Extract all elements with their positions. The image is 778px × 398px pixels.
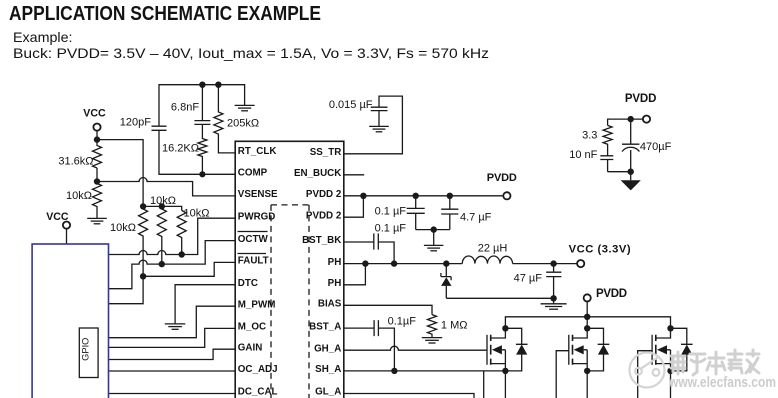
node top right dot <box>628 116 634 122</box>
ground 47uF <box>541 298 567 309</box>
node divider junction <box>94 178 100 184</box>
node bottom dot <box>628 169 634 175</box>
node rail dot 2 <box>159 203 165 209</box>
resistor pullup 10k (OCTW) label top <box>150 195 176 264</box>
node PVDD terminal (top right) <box>625 93 657 123</box>
watermark logo circle <box>630 353 665 388</box>
wire GH_A net with hop <box>344 346 487 350</box>
svg-text:BIAS: BIAS <box>318 299 342 310</box>
wire PWRGD net with hops <box>109 218 236 254</box>
wire VCC to pullup rail <box>97 140 143 207</box>
wire SH_A down to low side <box>483 371 485 398</box>
svg-text:DC_CAL: DC_CAL <box>238 387 278 398</box>
op-amp U1 DRV8301 IC body <box>235 141 344 398</box>
node PH dot b <box>391 260 397 266</box>
svg-text:PVDD 2: PVDD 2 <box>306 210 342 221</box>
wire VSENSE with hop <box>97 178 236 196</box>
svg-text:VSENSE: VSENSE <box>238 189 278 200</box>
node junction rail 6.8nF <box>199 82 205 88</box>
svg-text:22 µH: 22 µH <box>478 243 508 255</box>
svg-text:120pF: 120pF <box>120 116 151 128</box>
svg-text:PH: PH <box>328 257 342 268</box>
wire caps common ground <box>416 229 450 231</box>
transistor Q2 high side B <box>569 325 610 374</box>
resistor 205k <box>214 85 259 153</box>
svg-text:Example:: Example: <box>13 29 73 45</box>
ground arrow (top right) <box>621 180 641 190</box>
svg-text:3.3: 3.3 <box>582 130 597 142</box>
resistor R2 10k <box>66 184 101 219</box>
svg-text:10 nF: 10 nF <box>569 149 597 161</box>
three pullup resistors rail <box>143 206 182 210</box>
capacitor 470uF electrolytic <box>622 119 672 172</box>
svg-text:4.7 µF: 4.7 µF <box>460 212 492 224</box>
svg-text:GAIN: GAIN <box>238 342 262 353</box>
ground divider <box>87 218 107 223</box>
svg-text:6.8nF: 6.8nF <box>171 102 199 114</box>
svg-text:FAULT: FAULT <box>238 256 269 267</box>
pin FAULT with overline <box>238 254 269 267</box>
wire GL_A net <box>344 394 474 398</box>
node PVDD2 dot c <box>447 193 453 199</box>
wire VCC stem <box>96 130 98 139</box>
node COMP junction <box>199 171 205 177</box>
node PVDD terminal (FET rail) <box>584 288 627 302</box>
node FAULT pullup dot <box>140 273 146 279</box>
node 47uF dot <box>550 260 556 266</box>
node junction VCC <box>94 136 100 142</box>
wire BIAS net <box>344 305 432 314</box>
diode D1 catch <box>441 264 452 299</box>
wire FAULT net <box>109 262 236 303</box>
svg-text:31.6kΩ: 31.6kΩ <box>58 156 93 168</box>
svg-text:SS_TR: SS_TR <box>310 147 342 158</box>
transistor Q1 high side A <box>487 325 528 374</box>
svg-text:BST_A: BST_A <box>309 321 341 332</box>
capacitor 0.015uF <box>329 99 388 111</box>
wire Q1 source down <box>504 371 506 398</box>
svg-text:16.2KΩ: 16.2KΩ <box>162 142 199 154</box>
svg-text:0.1µF: 0.1µF <box>388 316 417 328</box>
capacitor C 6.8nF <box>171 85 210 125</box>
svg-text:GL_A: GL_A <box>315 387 341 398</box>
svg-text:10kΩ: 10kΩ <box>184 207 210 219</box>
ground top rail <box>235 105 255 110</box>
wire GAIN net <box>109 349 236 359</box>
svg-text:VCC (3.3V): VCC (3.3V) <box>569 243 631 255</box>
wire buck bottom rail <box>446 297 553 299</box>
svg-text:205kΩ: 205kΩ <box>227 117 259 129</box>
svg-text:GH_A: GH_A <box>314 343 341 354</box>
wire SH_A net <box>344 370 506 372</box>
svg-text:M_PWM: M_PWM <box>238 299 276 310</box>
wire PH pin b link <box>344 264 366 285</box>
ground PVDD2 caps <box>424 230 444 251</box>
capacitor BST_A 0.1uF <box>344 316 416 371</box>
svg-text:VCC: VCC <box>46 211 69 223</box>
svg-text:PVDD: PVDD <box>625 93 657 105</box>
svg-text:Buck: PVDD= 3.5V – 40V, Iout_m: Buck: PVDD= 3.5V – 40V, Iout_max = 1.5A,… <box>13 45 489 61</box>
svg-text:GPIO: GPIO <box>81 338 91 361</box>
GPIO block <box>32 244 108 398</box>
svg-text:10kΩ: 10kΩ <box>66 190 92 202</box>
wire PVDD2 pin b link <box>344 196 364 217</box>
svg-text:0.1 µF: 0.1 µF <box>375 205 407 217</box>
wire SS_TR net <box>344 96 403 154</box>
wire cap to ground <box>378 111 380 127</box>
svg-text:PWRGD: PWRGD <box>238 211 276 222</box>
node PVDD2 dot a <box>360 193 366 199</box>
svg-text:10kΩ: 10kΩ <box>110 222 136 234</box>
node BST_A to SH_A dot <box>391 368 397 374</box>
node bottom rail dot <box>550 295 556 301</box>
wire 120pF to COMP <box>159 130 236 174</box>
wire VCC to GPIO box <box>66 228 68 244</box>
node VCC 3.3V terminal <box>569 243 631 267</box>
wire Q2 gate <box>556 351 569 398</box>
svg-text:PVDD: PVDD <box>487 172 517 184</box>
wire M_PWM net <box>109 306 236 338</box>
node PVDD2 dot b <box>413 193 419 199</box>
resistor R1 31.6k <box>58 140 101 168</box>
svg-text:VCC: VCC <box>83 108 106 120</box>
capacitor BST_BK 0.1uF <box>344 223 406 264</box>
svg-text:BST_BK: BST_BK <box>302 235 341 246</box>
wire EN_BUCK stub <box>344 174 364 176</box>
inductor L1 22uH <box>462 243 512 264</box>
transistor Q3 high side C <box>652 325 693 374</box>
svg-text:www.elecfans.com: www.elecfans.com <box>668 374 776 391</box>
node rail dot <box>584 314 590 320</box>
svg-text:PVDD 2: PVDD 2 <box>306 189 342 200</box>
node PH dot a <box>362 260 368 266</box>
svg-text:OC_ADJ: OC_ADJ <box>238 364 278 375</box>
svg-text:47 µF: 47 µF <box>514 272 543 284</box>
capacitor 10nF <box>569 149 613 172</box>
node VCC terminal (top left) <box>83 108 106 131</box>
wire OCTW net with hop <box>109 241 236 289</box>
resistor 1M <box>428 315 468 338</box>
wire PH net <box>344 263 463 265</box>
node PVDD terminal <box>487 172 517 199</box>
svg-text:470µF: 470µF <box>640 141 672 153</box>
wire bottom link <box>608 171 631 173</box>
wire Q2 source down <box>586 371 588 398</box>
node OCTW pullup dot <box>159 261 165 267</box>
wire PVDD2 net <box>344 195 504 197</box>
svg-text:M_OC: M_OC <box>238 322 266 333</box>
node VCC terminal (GPIO) <box>46 211 70 229</box>
watermark chinese characters <box>671 350 759 375</box>
capacitor 4.7uF <box>441 196 491 230</box>
capacitor 47uF <box>514 264 562 299</box>
svg-text:OCTW: OCTW <box>238 234 269 245</box>
svg-text:10kΩ: 10kΩ <box>150 195 176 207</box>
pin OCTW with overline <box>238 232 269 245</box>
wire internal dashed boundary <box>271 205 309 398</box>
wire PVDD rail <box>505 301 670 328</box>
resistor pullup 10k (PWRGD) label right <box>177 207 209 254</box>
wire M_OC net <box>109 328 236 347</box>
ground 1M <box>422 338 442 343</box>
wire L to VCC terminal <box>513 263 578 265</box>
capacitor 0.1uF (PVDD2) <box>375 196 425 230</box>
wire OC_ADJ net <box>109 370 236 372</box>
node rail dot 1 <box>140 203 146 209</box>
resistor 16.2K <box>162 124 207 174</box>
wire DC_CAL net <box>109 393 236 395</box>
node PH dot diode <box>443 260 449 266</box>
GPIO inner label box <box>79 328 98 378</box>
svg-text:0.1 µF: 0.1 µF <box>375 223 407 235</box>
wire to gnd arrow <box>630 172 632 181</box>
wire top rail compensation <box>159 85 245 127</box>
svg-text:APPLICATION SCHEMATIC EXAMPLE: APPLICATION SCHEMATIC EXAMPLE <box>9 2 321 25</box>
svg-text:RT_CLK: RT_CLK <box>238 146 277 157</box>
resistor pullup 10k (FAULT) label left <box>110 209 148 276</box>
svg-text:EN_BUCK: EN_BUCK <box>294 168 341 179</box>
svg-text:0.015 µF: 0.015 µF <box>329 99 373 111</box>
node junction rail 205k <box>215 82 221 88</box>
wire top right rail <box>608 119 644 125</box>
capacitor 120pF <box>120 116 167 130</box>
ground DTC <box>165 324 186 329</box>
resistor 3.3 <box>582 125 612 155</box>
node cap gnd dot <box>431 226 437 232</box>
wire Q3 source down <box>670 371 672 398</box>
svg-text:COMP: COMP <box>238 168 268 179</box>
svg-text:PVDD: PVDD <box>596 288 627 300</box>
svg-text:SH_A: SH_A <box>315 364 341 375</box>
svg-text:DTC: DTC <box>238 278 258 289</box>
wire Q3 gate <box>638 351 652 398</box>
wire DTC to ground <box>175 285 236 324</box>
svg-text:1 MΩ: 1 MΩ <box>441 319 468 331</box>
wire between resistors <box>96 168 98 184</box>
svg-text:PH: PH <box>328 278 342 289</box>
node PWRGD pullup dot <box>179 251 185 257</box>
ground SS cap <box>369 126 389 131</box>
